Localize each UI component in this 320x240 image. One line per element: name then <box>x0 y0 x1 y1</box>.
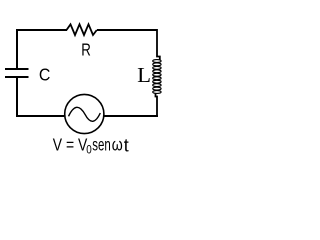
svg-text:L: L <box>137 63 151 87</box>
svg-text:0: 0 <box>86 142 92 156</box>
wire: right side upper (top-right corner down to inductor top) <box>157 29 160 60</box>
label: source equation V = V0 sen wt <box>53 135 129 157</box>
svg-text:ω: ω <box>112 135 123 155</box>
svg-text:C: C <box>39 64 51 84</box>
svg-text:sen: sen <box>92 135 111 155</box>
inductor L (coil of 10 turns) <box>153 60 161 94</box>
wire: left side upper (top-left corner down to capacitor top plate) <box>16 29 18 68</box>
svg-text:t: t <box>124 136 129 156</box>
AC source sine wave <box>69 107 101 121</box>
resistor R (zigzag) <box>67 24 97 35</box>
capacitor C top plate <box>5 68 29 70</box>
AC source V (circle) <box>65 94 104 133</box>
svg-text:V = V: V = V <box>53 135 88 155</box>
wire: inductor bottom lead down to bottom-right corner <box>156 94 158 117</box>
wire: bottom-right corner to AC source right terminal <box>104 115 158 117</box>
wire: left side lower (capacitor bottom plate down to bottom-left corner) <box>16 78 18 118</box>
wire: AC source left terminal to bottom-left corner <box>16 115 64 117</box>
capacitor C bottom plate <box>5 76 29 78</box>
wire: top-left corner to resistor left lead <box>17 29 67 31</box>
svg-text:R: R <box>81 40 91 60</box>
wire: resistor right lead to top-right corner <box>97 29 157 31</box>
